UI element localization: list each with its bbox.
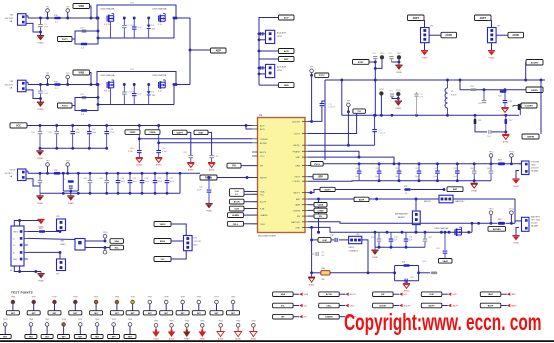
- capacitor C25 DNP: [478, 90, 486, 105]
- svg-text:IBAT: IBAT: [295, 204, 300, 207]
- wire comp loop feed: [368, 271, 396, 274]
- svg-text:TEST POINTS: TEST POINTS: [11, 291, 33, 295]
- net label output JP1: [441, 32, 457, 38]
- svg-text:SCL: SCL: [281, 306, 286, 308]
- svg-text:ACP: ACP: [260, 125, 265, 128]
- net tie SDA: [273, 292, 309, 297]
- transistor Q4 CSD17308Q3A: [152, 74, 167, 92]
- svg-text:C19: C19: [133, 178, 136, 180]
- svg-text:C22: C22: [433, 168, 436, 170]
- test point TP usb A: [103, 232, 109, 241]
- ground PGND J7 top: [37, 219, 44, 229]
- connector J3 sense: [5, 169, 29, 181]
- capacitor C12 10uF: [87, 126, 97, 149]
- net label BTST: [353, 60, 376, 65]
- capacitor electrolytic DNP: [122, 17, 135, 38]
- svg-text:ACOK: ACOK: [445, 34, 452, 37]
- svg-text:R41: R41: [402, 262, 405, 264]
- rc comp loop: [395, 262, 430, 283]
- svg-text:20V-24V: 20V-24V: [5, 84, 14, 86]
- svg-text:CMPIN: CMPIN: [527, 137, 534, 139]
- net label hidrv: [526, 87, 543, 93]
- test point TP46 row2: [58, 319, 70, 338]
- capacitor C26: [503, 90, 513, 107]
- net label PGT1: [58, 37, 76, 42]
- net label acdrv right: [526, 60, 543, 81]
- svg-text:OUT GND: OUT GND: [531, 220, 541, 222]
- resistor R26: [474, 115, 487, 132]
- capacitor C18 10uF: [116, 173, 126, 193]
- svg-text:VSYS: VSYS: [314, 164, 320, 166]
- net label vr en: [154, 239, 184, 244]
- net label bat sense box: [488, 227, 506, 232]
- svg-text:EN: EN: [319, 216, 322, 218]
- wire J7 pin2 to U5: [28, 238, 75, 239]
- test point ground AGND: [199, 320, 207, 340]
- svg-text:CMSRC: CMSRC: [260, 139, 268, 141]
- connector J3 input: [5, 80, 29, 92]
- net label output JP4: [508, 32, 524, 38]
- test point TP bat A: [489, 209, 495, 224]
- svg-text:VDDA: VDDA: [149, 131, 156, 134]
- ground PGND JP4: [488, 50, 495, 60]
- net tie EN: [373, 292, 407, 297]
- svg-text:C20: C20: [145, 178, 148, 180]
- capacitor C6 DNP: [31, 126, 42, 149]
- svg-text:AGND: AGND: [188, 169, 194, 172]
- svg-text:SRN: SRN: [284, 85, 289, 87]
- svg-text:VIN1: VIN1: [78, 5, 84, 8]
- capacitor C14 0.1uF: [128, 126, 142, 158]
- svg-text:PGND: PGND: [68, 203, 74, 205]
- wire bypass top rail: [96, 69, 178, 86]
- svg-text:VIN2: VIN2: [78, 72, 84, 75]
- svg-text:CELL: CELL: [326, 306, 332, 308]
- svg-text:BATP: BATP: [488, 305, 494, 308]
- ground AGND C16: [155, 157, 162, 167]
- svg-text:GND: GND: [531, 165, 536, 167]
- wire power bus upper: [325, 79, 545, 82]
- capacitor C20 10uF: [140, 173, 150, 193]
- resistor R35 10: [404, 186, 445, 195]
- svg-text:20V-24V: 20V-24V: [5, 18, 14, 20]
- net label VIN2: [73, 70, 92, 86]
- net label ADAPTER: [211, 48, 227, 53]
- svg-text:20-24V: 20-24V: [5, 173, 13, 175]
- net tie INT: [273, 314, 308, 319]
- test point TP sw2: [396, 90, 402, 100]
- svg-text:PGND: PGND: [37, 203, 43, 205]
- svg-text:0.1uF: 0.1uF: [128, 151, 134, 153]
- svg-text:BATDRV: BATDRV: [291, 221, 300, 224]
- net label batp: [354, 197, 439, 201]
- svg-text:PH: PH: [232, 166, 236, 168]
- svg-text:DNP: DNP: [130, 3, 135, 5]
- svg-text:BATTERY: BATTERY: [531, 216, 541, 219]
- resistor RS1 sense: [498, 160, 505, 166]
- wire U5 out A: [85, 240, 106, 243]
- svg-text:JP9: JP9: [56, 274, 59, 276]
- capacitor battery sense: [436, 231, 447, 259]
- test point TP47 row2: [74, 319, 86, 338]
- svg-text:EN: EN: [381, 294, 384, 296]
- svg-text:CSD17308Q3A: CSD17308Q3A: [100, 8, 115, 11]
- connector J1 input: [5, 14, 29, 26]
- svg-text:TP30: TP30: [11, 296, 15, 298]
- svg-text:SDA: SDA: [304, 293, 309, 296]
- ground AGND comp loop: [403, 281, 410, 293]
- jumper JP8: [56, 216, 66, 233]
- resistor R19 2.2R: [54, 81, 61, 90]
- svg-text:PH: PH: [260, 166, 263, 168]
- svg-text:ACDET: ACDET: [404, 305, 412, 308]
- svg-text:ACN: ACN: [260, 128, 265, 131]
- wire vcc row: [27, 124, 252, 129]
- svg-text:C35: C35: [436, 248, 439, 250]
- capacitor C2B system bus: [453, 164, 459, 181]
- svg-text:R25: R25: [523, 105, 526, 107]
- svg-text:VIN33: VIN33: [160, 224, 167, 226]
- svg-text:R35: R35: [404, 186, 407, 188]
- svg-text:TP45: TP45: [45, 319, 49, 321]
- svg-text:U5B: U5B: [60, 241, 65, 243]
- net label VREF A: [125, 130, 140, 135]
- svg-text:VREF: VREF: [130, 132, 136, 134]
- capacitor DNP mid: [414, 92, 424, 115]
- svg-text:IADPT: IADPT: [177, 131, 184, 134]
- wire input main rail: [28, 82, 97, 84]
- svg-text:10uF: 10uF: [137, 27, 142, 29]
- net label vdda stub: [308, 203, 327, 207]
- svg-text:C20: C20: [395, 168, 398, 170]
- svg-text:TP41: TP41: [214, 296, 218, 298]
- test point TP31 row1: [27, 296, 40, 315]
- transistor Q1 CSD17308Q3A: [100, 8, 115, 39]
- svg-text:ADPT: ADPT: [413, 17, 420, 20]
- svg-text:TP19: TP19: [389, 91, 393, 93]
- wire vcc row return: [39, 147, 109, 150]
- svg-text:PGND: PGND: [206, 211, 212, 213]
- header JP4: [488, 21, 509, 43]
- jumper JP6 DEV2 CONNECT: [349, 234, 368, 273]
- net label srp: [308, 174, 328, 179]
- capacitor C30 1uF: [389, 232, 398, 247]
- svg-text:TP38: TP38: [164, 296, 168, 298]
- svg-text:TP48: TP48: [95, 319, 99, 321]
- svg-text:2V-16V: 2V-16V: [531, 223, 538, 225]
- test point TP sys B: [509, 151, 515, 164]
- test point ground PGND: [183, 320, 191, 340]
- capacitor DNP input: [38, 17, 49, 34]
- op-amp U10 regulator: [184, 236, 202, 251]
- svg-text:3.3uH: 3.3uH: [451, 95, 457, 97]
- svg-text:ILIM: ILIM: [235, 209, 239, 211]
- svg-text:LODRV: LODRV: [293, 181, 301, 183]
- wire connector return to ground: [28, 90, 41, 102]
- wire iadpt right: [308, 190, 320, 195]
- svg-text:PGND: PGND: [422, 58, 428, 60]
- svg-text:VCC: VCC: [16, 124, 21, 127]
- ground AGND sw: [501, 107, 508, 117]
- wire input main rail: [28, 16, 97, 18]
- capacitor C8 DNP: [48, 126, 59, 149]
- net label REGN pin: [200, 175, 258, 180]
- svg-text:TP56: TP56: [185, 320, 189, 322]
- svg-text:CELL: CELL: [350, 306, 356, 308]
- svg-text:BATTERY: BATTERY: [456, 200, 466, 203]
- svg-text:LEARN: LEARN: [232, 214, 239, 217]
- svg-text:BATP: BATP: [511, 305, 517, 308]
- capacitor DNP sw: [389, 91, 398, 99]
- svg-text:ACN-BUS: ACN-BUS: [277, 65, 287, 68]
- resistor RS2 sense: [498, 219, 505, 225]
- svg-text:TP40: TP40: [197, 296, 201, 298]
- svg-text:LEARN: LEARN: [260, 214, 268, 217]
- wire row3 lower rail: [40, 173, 180, 194]
- test point TP43 row2: [0, 319, 11, 338]
- wire vdda to ic: [159, 142, 252, 144]
- svg-text:AGND: AGND: [156, 164, 162, 167]
- svg-text:PGND: PGND: [489, 58, 495, 60]
- svg-text:AGND: AGND: [209, 169, 215, 172]
- transistor Q3 CSD17308Q3A: [100, 74, 115, 105]
- ground PGND JP1: [421, 50, 428, 60]
- svg-text:1uF: 1uF: [523, 108, 526, 110]
- svg-text:SYSTEM: SYSTEM: [531, 162, 540, 164]
- svg-text:C14: C14: [130, 148, 133, 150]
- svg-text:3.3V VR: 3.3V VR: [194, 241, 202, 243]
- net label ACP: [279, 15, 295, 20]
- net label PVCC: [315, 73, 329, 77]
- ground PGND pair: [395, 62, 402, 74]
- net tie IADPT: [421, 303, 459, 308]
- net label comp stub: [308, 208, 327, 212]
- wire mosfet cell rail: [97, 17, 176, 38]
- ground AGND system bank: [471, 181, 478, 193]
- svg-text:C40: C40: [199, 187, 202, 189]
- net label SRN: [259, 83, 294, 88]
- resistor R27: [505, 115, 513, 132]
- svg-text:RS1: RS1: [498, 160, 502, 162]
- svg-text:TP31: TP31: [32, 296, 36, 298]
- svg-text:CONNECT: CONNECT: [349, 250, 360, 252]
- svg-text:BAT: BAT: [453, 188, 458, 191]
- net tie SCL: [273, 303, 309, 308]
- wire output: [174, 17, 190, 19]
- svg-text:SRP: SRP: [318, 177, 323, 179]
- svg-text:ACOK: ACOK: [512, 34, 519, 37]
- svg-text:TP44: TP44: [29, 319, 33, 321]
- test point TP pgnd pair: [397, 53, 403, 63]
- svg-text:R61: R61: [322, 268, 325, 270]
- capacitor C1B system bus: [375, 164, 381, 181]
- svg-text:TP35: TP35: [115, 296, 119, 298]
- svg-text:IADPT: IADPT: [452, 305, 459, 308]
- svg-text:PGND: PGND: [513, 186, 519, 188]
- svg-text:SRP: SRP: [296, 157, 301, 159]
- svg-text:ILIM: ILIM: [429, 294, 433, 296]
- test point ground AGND: [235, 320, 242, 340]
- net label battery sense: [439, 259, 453, 264]
- svg-text:VBAT: VBAT: [442, 260, 448, 263]
- op-amp U5B level shifter: [60, 239, 85, 251]
- wire phase vertical: [324, 80, 326, 160]
- svg-text:C30: C30: [394, 237, 397, 239]
- test point TP45 row2: [41, 319, 53, 338]
- net label on sw node: [353, 109, 366, 113]
- capacitor row3 DNP B: [83, 173, 92, 193]
- svg-text:C42: C42: [410, 277, 413, 279]
- wire jumper column link: [258, 50, 261, 59]
- capacitor DNP gate: [80, 28, 86, 33]
- resistor DNP feedback: [470, 86, 477, 91]
- ground PGND vcc row: [36, 148, 43, 160]
- capacitor DNP system bus: [487, 164, 493, 181]
- svg-text:GND: GND: [13, 259, 18, 261]
- resistor R50: [28, 228, 60, 233]
- wire srn long: [308, 157, 395, 165]
- svg-text:PGND: PGND: [38, 43, 44, 45]
- svg-text:VIN: VIN: [10, 81, 14, 83]
- svg-text:SDA: SDA: [260, 191, 265, 194]
- resistor R61 56k: [312, 268, 370, 281]
- wire vref to ic: [139, 138, 252, 140]
- test point TP30 row1: [6, 296, 19, 315]
- jumper JP2: [258, 18, 287, 52]
- net label usb A: [110, 239, 124, 244]
- svg-text:PHASE: PHASE: [293, 150, 301, 153]
- net label vr out: [154, 251, 186, 262]
- wire system bus: [323, 162, 521, 165]
- svg-text:R26: R26: [478, 120, 481, 122]
- wire lodrv to rail: [308, 180, 359, 183]
- test point ground PGND: [152, 320, 160, 340]
- svg-text:VBUS: VBUS: [13, 232, 19, 234]
- net tie LEARN: [319, 314, 357, 319]
- svg-text:TP56: TP56: [169, 320, 173, 322]
- svg-text:LEARN: LEARN: [325, 316, 333, 319]
- svg-text:PGND: PGND: [372, 257, 378, 259]
- net label VIN1: [73, 4, 92, 20]
- jumper JP9: [56, 259, 66, 276]
- test point ground AGND: [217, 320, 224, 340]
- test point TP input B: [66, 73, 71, 86]
- svg-text:TP37: TP37: [148, 296, 152, 298]
- svg-text:TP14: TP14: [372, 53, 376, 55]
- svg-text:C10: C10: [76, 129, 79, 131]
- svg-text:CELL: CELL: [260, 224, 266, 226]
- ground PGND row3 A: [36, 193, 43, 205]
- svg-text:TP32: TP32: [52, 296, 56, 298]
- capacitor C20 system bus: [395, 164, 401, 181]
- wire U5 out B: [85, 246, 106, 250]
- svg-text:5.1k: 5.1k: [158, 90, 162, 92]
- test point TP42 row1: [227, 296, 240, 315]
- svg-text:U1: U1: [259, 113, 263, 117]
- wire J7 top pins: [14, 219, 41, 226]
- net label iadpt mid: [320, 187, 401, 191]
- svg-text:ILIM: ILIM: [260, 209, 264, 211]
- svg-text:USBD: USBD: [60, 244, 66, 246]
- wire J7 pin4 jumper: [28, 251, 61, 259]
- svg-text:TP34: TP34: [94, 296, 98, 298]
- ground AGND divider: [502, 132, 509, 144]
- svg-text:Copyright:www. eccn. com: Copyright:www. eccn. com: [344, 309, 542, 335]
- svg-text:ACDET: ACDET: [260, 142, 268, 145]
- net label system bus: [308, 162, 323, 167]
- ground AGND ibat: [208, 162, 215, 172]
- capacitor DNP comp: [312, 252, 326, 257]
- capacitor C38: [330, 235, 349, 242]
- net label fb right: [522, 79, 542, 139]
- svg-text:ILIM: ILIM: [322, 240, 326, 242]
- test point TP bat B: [509, 209, 515, 224]
- test point TP row3 A: [46, 160, 51, 173]
- svg-text:REGN: REGN: [260, 178, 267, 180]
- test point TP sw1: [379, 89, 385, 115]
- capacitor C28 DNP: [487, 130, 507, 138]
- net label vr in: [154, 222, 186, 236]
- svg-text:ACOK: ACOK: [234, 201, 241, 204]
- svg-text:PGND: PGND: [395, 108, 401, 110]
- wire hidrv pin: [308, 144, 375, 146]
- net label en stub: [308, 214, 327, 218]
- svg-text:TP56: TP56: [218, 320, 222, 322]
- svg-text:TP46: TP46: [61, 319, 65, 321]
- connector J5 battery output: [515, 216, 541, 236]
- svg-text:DNP: DNP: [44, 93, 49, 95]
- capacitor C23 0.047uF: [372, 115, 386, 145]
- wire acdrv right: [308, 106, 322, 121]
- svg-text:TP33: TP33: [73, 296, 77, 298]
- net tie CELL: [319, 303, 356, 308]
- svg-text:0.047uF: 0.047uF: [329, 107, 336, 109]
- svg-text:IADPT: IADPT: [428, 305, 435, 308]
- wire adapter join: [189, 18, 210, 85]
- svg-text:TP16: TP16: [388, 53, 392, 55]
- capacitor C31 1uF: [404, 232, 413, 247]
- copyright watermark: [344, 309, 542, 335]
- wire battery bus: [308, 199, 515, 225]
- svg-text:SDA: SDA: [115, 240, 120, 243]
- wire gate loop: [75, 30, 99, 44]
- resistor R 2.4: [81, 43, 88, 50]
- wire header ground JP4: [491, 43, 493, 50]
- svg-text:CSD17308Q3A: CSD17308Q3A: [152, 8, 167, 11]
- svg-text:VIN: VIN: [10, 15, 14, 17]
- capacitor C3 10uF: [132, 83, 142, 104]
- capacitor C44 DNP: [371, 232, 381, 247]
- capacitor row3 DNP A: [31, 173, 42, 193]
- svg-text:CSD17308Q3A: CSD17308Q3A: [100, 74, 115, 77]
- svg-text:CMPIN: CMPIN: [293, 210, 300, 212]
- svg-text:IBAT: IBAT: [199, 131, 204, 134]
- svg-text:PGND: PGND: [37, 158, 43, 160]
- ground PGND row3 loop: [67, 191, 74, 205]
- svg-text:BQ24780S RGER: BQ24780S RGER: [258, 236, 276, 238]
- svg-text:PVCC: PVCC: [319, 75, 325, 77]
- svg-text:3A MAX: 3A MAX: [531, 225, 539, 228]
- svg-text:EN: EN: [297, 216, 300, 218]
- svg-text:C43: C43: [321, 252, 324, 254]
- op-amp U1 BQ24780S charge controller: [252, 113, 308, 238]
- capacitor DNP gate: [80, 94, 86, 99]
- capacitor C3 10uF: [132, 17, 142, 38]
- net label IBAT: [194, 130, 212, 155]
- inductor L1 3.3uH: [445, 80, 457, 115]
- capacitor DNP ibat: [209, 155, 219, 162]
- wire comp mid drop: [317, 199, 320, 234]
